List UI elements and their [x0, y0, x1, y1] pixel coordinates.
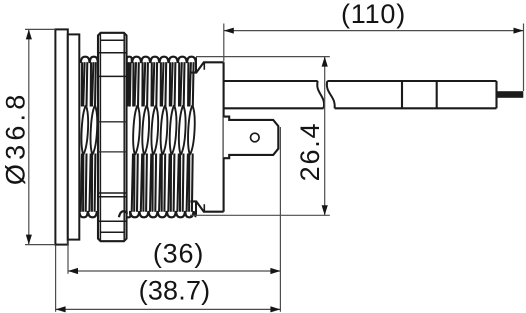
svg-text:(38.7): (38.7): [139, 276, 211, 306]
svg-text:Ø36.8: Ø36.8: [1, 91, 31, 186]
svg-text:(36): (36): [153, 239, 204, 269]
svg-text:(110): (110): [341, 0, 406, 29]
svg-text:26.4: 26.4: [295, 122, 325, 182]
